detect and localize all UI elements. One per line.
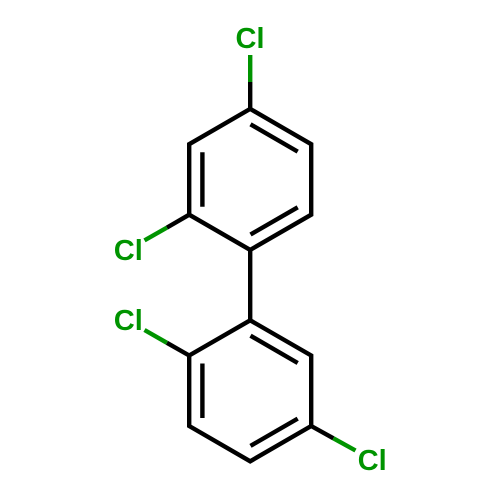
bond C4-Cl top, chlorine half — [248, 55, 252, 82]
double bond C5=C6 inner line (ring A left) — [200, 152, 204, 207]
bond C2'-Cl left lower, chlorine half — [145, 330, 167, 343]
atom label Cl (position 4, top) — [237, 27, 263, 48]
atom label Cl (position 2', left lower) — [115, 309, 141, 330]
atom label Cl (position 2, left upper) — [115, 239, 141, 260]
bond C5'-Cl bottom right, chlorine half — [333, 438, 355, 450]
double bond C5'=C4' inner line (ring B bottom-right) — [251, 419, 298, 446]
bond C2-Cl left upper, chlorine half — [145, 228, 167, 241]
benzene ring B (bottom phenyl) — [189, 320, 311, 461]
biphenyl bond C1-C1' — [248, 250, 252, 320]
atom label Cl (position 5', bottom right) — [359, 449, 385, 470]
double bond C1'=C6' inner line (ring B top-right) — [251, 336, 298, 363]
bond C5'-Cl bottom right, carbon half — [311, 426, 333, 438]
bond C2-Cl left upper, carbon half — [167, 215, 189, 228]
double bond C4=C3 inner line (ring A top-right) — [251, 124, 298, 151]
bond C4-Cl top, carbon half — [248, 82, 252, 109]
bond C2'-Cl left lower, carbon half — [167, 343, 189, 356]
double bond C2=C1 inner line (ring A bottom-right) — [251, 207, 298, 234]
benzene ring A (top phenyl) — [189, 109, 311, 250]
double bond C2'=C3' inner line (ring B left) — [200, 364, 204, 419]
